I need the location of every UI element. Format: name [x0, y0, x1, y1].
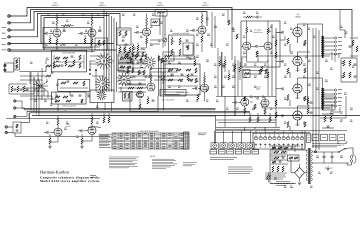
- selector wafer S1C: [123, 79, 124, 80]
- wire bus2 top: [9, 10, 352, 37]
- junction hub: [40, 85, 42, 87]
- right driver bus rows: [216, 119, 276, 121]
- resistor cathode V5r: [264, 109, 266, 114]
- selenium rectifier bridge: [295, 168, 305, 179]
- terminal labels T2: [338, 89, 342, 91]
- phono2 box: [13, 122, 21, 133]
- bias parts right low: [324, 116, 326, 122]
- loudness control box: [169, 35, 195, 59]
- wire V1A plate: [56, 25, 58, 29]
- selector parts row3: [127, 68, 129, 73]
- triode V1A: [53, 29, 61, 37]
- triode V2B: [143, 28, 151, 36]
- wire V4A down: [201, 46, 203, 52]
- wire right-driver drops: [244, 127, 246, 131]
- wire V2A plate: [91, 25, 93, 29]
- wire mid risers 3: [234, 56, 236, 116]
- ps lower parts: [272, 166, 274, 172]
- wire V1A cathode to box: [56, 48, 58, 51]
- resistor R9 cathode V2A: [91, 39, 93, 45]
- cathode follower box: [130, 96, 158, 112]
- wire lower-left riser bundle: [30, 72, 32, 111]
- small box mid right: [243, 70, 250, 78]
- components below V2B: [137, 45, 139, 51]
- wire riser bus f: [116, 22, 118, 92]
- wire right low bus 2: [216, 128, 280, 130]
- selector wafer S1A: [103, 60, 104, 61]
- wire V2B lower down: [91, 135, 93, 142]
- resistor plate V2B lower: [91, 117, 93, 124]
- centre vertical wires: [158, 55, 160, 96]
- svg-text:+: +: [325, 154, 326, 157]
- input jack J2: [8, 22, 11, 25]
- resistor R3 plate V1A: [56, 17, 58, 25]
- wire bus6 top: [9, 18, 104, 51]
- parts list col 3: [276, 181, 290, 183]
- resistor in splitter 1: [246, 27, 248, 33]
- ground bus dots: [270, 183, 296, 185]
- treble network box lower: [58, 79, 90, 91]
- wire B+ rail 2: [315, 28, 317, 133]
- aux jack row: [14, 100, 16, 102]
- feedback wiring: [341, 57, 357, 59]
- parts above bass box: [158, 56, 160, 61]
- small note far left: [90, 175, 96, 177]
- wire interstage v2: [221, 52, 223, 96]
- resistor cathode V4A: [201, 36, 203, 42]
- centre misc parts: [194, 60, 196, 66]
- triode V2A: [88, 29, 96, 37]
- parts cluster under filter box: [119, 47, 121, 53]
- wire bus mid-6: [6, 118, 100, 120]
- input jack labels: [2, 27, 7, 29]
- svg-text:6BQ5: 6BQ5: [256, 88, 260, 91]
- input jack J3: [8, 29, 11, 32]
- wire ps vertical left: [269, 150, 271, 184]
- resistor cathode V2B lower: [81, 138, 83, 144]
- wire bus mid-2: [25, 109, 216, 111]
- resistor splitter tail 2: [239, 66, 241, 72]
- tiny terminals mid: [89, 69, 91, 71]
- capacitor grid V2B lower: [80, 129, 82, 132]
- wire eq risers: [27, 77, 34, 94]
- treble pot: [163, 58, 167, 62]
- screen resistor col right: [275, 100, 277, 106]
- wire drops to cap box: [255, 131, 257, 133]
- wire mid verticals 2: [221, 52, 223, 96]
- wire right vertical bundle: [267, 60, 269, 96]
- wire eq fan 2: [24, 91, 48, 98]
- wire bus3 top: [9, 12, 207, 31]
- splitter coupling parts: [255, 45, 257, 48]
- ps resistor row2: [274, 157, 279, 159]
- speaker terminals T1: [334, 37, 336, 39]
- triode V2B lower: [88, 127, 96, 135]
- wire feedback long: [336, 54, 340, 58]
- phono jack 1: [4, 64, 6, 66]
- selector wafer S1D: [102, 83, 103, 84]
- capacitor C5 V2A grid: [80, 32, 82, 35]
- phono jack 2: [4, 69, 6, 71]
- ground V2B cathode: [80, 146, 83, 148]
- wire splitter bottom: [247, 50, 268, 62]
- wire bus mid-1: [22, 107, 216, 109]
- bias network left of PT: [288, 155, 300, 161]
- wire riser bus d: [111, 16, 113, 92]
- tape output terminal strip: [184, 132, 190, 149]
- wire second lower run: [10, 51, 95, 53]
- treble network box: [52, 92, 87, 104]
- wire phono riser to bus: [28, 113, 30, 119]
- wire eq fan 3: [20, 96, 52, 100]
- wire right low bus 1: [216, 127, 280, 129]
- resistor plate V4r: [244, 97, 246, 101]
- wire tap drops: [331, 52, 333, 60]
- selector wiring: [90, 61, 96, 70]
- feedback resistors right: [343, 60, 345, 66]
- wire out tubes screen: [289, 44, 291, 52]
- wire top mid verticals: [159, 12, 161, 35]
- triode V4 right channel: [241, 98, 249, 106]
- capacitor interstage: [233, 69, 236, 71]
- power transformer windings: [306, 150, 307, 153]
- socket row 2: [210, 150, 217, 154]
- switch resistor box A: [118, 54, 133, 62]
- triode V4A: [198, 26, 206, 34]
- V2A lower box: [95, 38, 108, 50]
- switch bank right: [322, 96, 335, 110]
- svg-text:12AX7A: 12AX7A: [52, 4, 60, 7]
- resistor extra mid2: [46, 65, 51, 67]
- resistor in splitter 2: [267, 28, 269, 34]
- balance wafer S2: [101, 95, 102, 96]
- resistor R7 grid V2A: [84, 38, 86, 44]
- resistor plate V3A: [150, 75, 152, 82]
- bass tone network box: [52, 51, 87, 72]
- svg-text:NOTE:: NOTE:: [150, 155, 156, 158]
- wire splitter bottom rows: [243, 70, 268, 72]
- electrolytic C30: [323, 156, 326, 158]
- cathode follower parts: [147, 98, 149, 104]
- wire lower riser a: [21, 101, 23, 108]
- wire interstage v1: [217, 48, 219, 96]
- resistor R16 plate V2B: [146, 18, 148, 26]
- bass control box lower channel: [165, 64, 200, 95]
- input jack J4: [8, 36, 11, 39]
- parts list col 2: [265, 172, 287, 174]
- wire riser bus e: [113, 18, 115, 92]
- phono eq box: [5, 63, 14, 72]
- big lower box outline: [180, 116, 216, 143]
- dense box right of balance: [123, 92, 133, 102]
- svg-text:Harman-Kardon: Harman-Kardon: [40, 169, 70, 174]
- capacitor V5B grid: [195, 87, 197, 90]
- selector part col extra: [125, 54, 127, 59]
- wire bus mid-3: [27, 110, 250, 112]
- resistor cathode V4r: [244, 108, 246, 113]
- filter capacitor can row: [253, 133, 305, 149]
- wire drops to lower tubes: [57, 104, 59, 111]
- wire ps risers: [301, 144, 303, 150]
- wire lower riser b: [24, 108, 26, 110]
- T1 secondary taps: [324, 37, 330, 39]
- wire T2 primary: [298, 78, 323, 88]
- wire tape out run: [15, 135, 110, 137]
- loudness parts: [186, 39, 189, 41]
- wire to output tubes: [276, 31, 282, 33]
- tube socket diagram 4: [238, 143, 245, 149]
- ps extra rows2: [270, 155, 286, 157]
- wire selector to follower: [129, 92, 131, 96]
- tube socket diagram 3: [229, 143, 236, 149]
- tube socket diagram 2: [220, 143, 227, 149]
- phase symbol small: [267, 176, 270, 179]
- triode cathode follower: [137, 91, 144, 98]
- wire plate runs output: [307, 24, 309, 105]
- wire bus1 top: [9, 8, 232, 24]
- ac plug P1: [350, 156, 353, 159]
- bass pot: [161, 76, 165, 80]
- right driver drops: [249, 117, 251, 122]
- wire bus5 top: [9, 16, 109, 44]
- coupling parts right ch: [254, 104, 256, 109]
- wire riser bus a: [103, 10, 105, 92]
- wire drops to sockets: [214, 131, 216, 143]
- power transformer core: [308, 148, 310, 184]
- triode V5B centre: [201, 84, 209, 92]
- resistor right of box: [261, 66, 263, 72]
- capacitor grid V4r: [234, 101, 236, 104]
- resistor plate V4A: [201, 15, 203, 23]
- output pentode V7 6BQ5: [293, 84, 302, 93]
- resistor plate V5B: [204, 76, 206, 83]
- bass lower lattice: [168, 69, 173, 71]
- resistor interstage b: [228, 74, 230, 80]
- wire selector rows left: [90, 55, 104, 57]
- feedback caps right: [354, 63, 357, 65]
- wire V2A out: [91, 49, 94, 52]
- resistor R4 cathode V1A: [56, 39, 58, 45]
- wire selector rows right: [150, 68, 178, 70]
- wire ps horizontal: [270, 149, 308, 151]
- upper mid extra wires: [150, 39, 163, 41]
- svg-text:12AX7A: 12AX7A: [99, 4, 107, 7]
- svg-text:12AX7A: 12AX7A: [202, 4, 210, 7]
- resistor splitter tail 1: [234, 64, 236, 70]
- speaker terminals T2: [334, 89, 336, 91]
- wire input6 to selector: [44, 49, 116, 51]
- socket row 2 ticks: [211, 151, 216, 153]
- aux terminal text: [312, 143, 345, 145]
- terminal labels T1: [338, 37, 342, 39]
- wire left col run: [45, 60, 47, 64]
- wire splitter to output: [276, 31, 280, 33]
- triode V4B: [243, 42, 251, 50]
- selector wafer S1B: [149, 62, 150, 63]
- switch resistor box B: [118, 63, 133, 71]
- phono2 jack 2: [5, 131, 7, 133]
- ps resistor row: [274, 151, 279, 153]
- wire bus4 top: [9, 14, 120, 37]
- output grid resistors: [287, 38, 289, 44]
- wire B+ rail 3: [318, 30, 320, 135]
- phono2 jack 1: [5, 126, 7, 128]
- speaker select wiring: [345, 96, 347, 118]
- filter box parts: [119, 31, 121, 36]
- wire PT secondary top: [312, 151, 339, 153]
- wire riser bus b: [106, 12, 108, 92]
- aux jack row2: [14, 107, 16, 109]
- wire eq fan 4: [30, 99, 56, 103]
- small box centre left: [183, 43, 193, 55]
- tube socket diagram 5: [247, 143, 254, 149]
- filter cap terminal box: [307, 134, 311, 143]
- capacitor C2 V1A grid: [45, 32, 47, 35]
- selector parts row: [127, 52, 129, 57]
- aux jack row3: [14, 115, 16, 117]
- wire PT secondary low: [312, 162, 349, 164]
- svg-text:+: +: [333, 154, 334, 157]
- phono eq inner box: [14, 58, 20, 70]
- svg-text:6BQ5: 6BQ5: [295, 15, 301, 18]
- interstage col extra: [219, 60, 221, 66]
- output transformer T2: [321, 88, 322, 90]
- triode V3A centre: [147, 83, 155, 91]
- resistor extra mid1: [65, 60, 67, 66]
- output pentode V3 6BQ5: [293, 27, 302, 36]
- wire feedback run upper: [258, 55, 330, 57]
- input jack J5: [8, 42, 11, 45]
- wire lower riser d: [29, 113, 31, 123]
- tube socket diagram 1: [211, 143, 218, 149]
- eq network resistors: [11, 86, 13, 92]
- balance box with wafer: [90, 90, 114, 103]
- selector area lattice: [118, 51, 146, 53]
- socket strip label: [198, 132, 207, 134]
- aux terminal block row: [312, 134, 319, 141]
- capacitor coupling mid: [55, 95, 57, 98]
- input jack J1: [8, 15, 11, 18]
- output pentode V4 6BQ5: [293, 56, 302, 65]
- resistor plate V1B: [57, 118, 59, 125]
- wire right low bus 3: [216, 130, 347, 132]
- svg-text:12AX7A: 12AX7A: [157, 4, 165, 7]
- upper left extra: [63, 29, 66, 31]
- capacitor C20: [192, 29, 194, 32]
- wire input6b: [44, 46, 100, 48]
- electrolytic C31: [331, 156, 334, 158]
- svg-text:PHASE INV.: PHASE INV.: [253, 31, 263, 34]
- capacitor C12 V2B: [136, 31, 138, 34]
- bias parts column: [307, 98, 309, 104]
- volume pot: [163, 38, 167, 42]
- first stage shield box: [43, 28, 91, 49]
- wire feedback run lower: [262, 104, 330, 108]
- tape output label box: [160, 90, 186, 97]
- wire B+ rail 1: [312, 28, 314, 131]
- loudness pot 2: [179, 38, 181, 45]
- output transformer T1: [321, 36, 322, 38]
- parts list col 1: [210, 157, 237, 159]
- wire V1B down: [57, 136, 59, 142]
- resistor R17 cathode V2B: [146, 38, 148, 44]
- output coupling caps: [281, 31, 283, 34]
- ground V1B cathode: [48, 146, 51, 148]
- capacitor bypass row: [63, 43, 66, 45]
- note under big box: [183, 162, 197, 164]
- wire input5 to selector: [41, 43, 114, 45]
- resistor R5 coupling: [64, 25, 71, 27]
- wire loudness top: [164, 16, 166, 35]
- wire phono out: [20, 71, 46, 73]
- coil on lead: [92, 127, 98, 128]
- output sect extra: [304, 40, 306, 45]
- notes block left: [109, 156, 139, 158]
- bass network parts: [55, 57, 60, 59]
- voltage chart table: [112, 133, 188, 149]
- wire bus mid-5: [32, 115, 360, 117]
- capacitor grid V1B: [46, 131, 48, 134]
- selector lower parts: [128, 87, 134, 89]
- svg-text:Model A230 stereo amplifier sy: Model A230 stereo amplifier system.: [40, 179, 100, 183]
- wire bottom right drops: [312, 131, 314, 148]
- svg-text:1. VOLTAGE READINGS: 1. VOLTAGE READINGS: [137, 130, 159, 133]
- small box level set: [151, 19, 160, 26]
- wire eq fan 1: [22, 88, 44, 96]
- triode V5A: [264, 42, 272, 50]
- wire bus mid-4: [30, 112, 251, 114]
- wire riser bus c: [108, 14, 110, 92]
- resistor interstage a: [224, 60, 226, 66]
- wire under selector: [96, 70, 104, 92]
- input jack J6: [8, 49, 11, 52]
- wire right low bus 4: [216, 131, 310, 133]
- output pentode V8 6BQ5: [293, 111, 302, 120]
- wire lower riser c: [26, 111, 28, 116]
- capacitor C24 top: [256, 16, 258, 19]
- wire right ch risers: [224, 96, 226, 127]
- treble parts: [55, 96, 60, 98]
- output tube wiring: [297, 37, 299, 43]
- wire T1 primary: [298, 24, 323, 36]
- T2 secondary taps: [324, 89, 330, 91]
- wire top right drop: [339, 10, 341, 31]
- shield box filter: [117, 28, 131, 45]
- resistor pair under bus: [103, 117, 105, 123]
- ps extra rows: [270, 145, 300, 147]
- phase inverter box: [241, 21, 280, 67]
- power switch SW1: [339, 149, 345, 153]
- ground symbol ps: [298, 182, 301, 184]
- resistor R30 top: [246, 16, 252, 18]
- component value labels (illegible at scale): [47, 13, 49, 15]
- wire driver B+ feed: [216, 96, 276, 98]
- resistor R2 grid V1A: [49, 38, 51, 44]
- wire centre v3: [231, 23, 233, 60]
- eq network caps: [14, 88, 17, 90]
- loudness pot 1: [171, 38, 173, 45]
- switch aux box: [163, 52, 174, 61]
- wire right edge vert: [351, 36, 353, 58]
- triode V1B: [54, 128, 62, 136]
- triode V5 right channel: [261, 99, 269, 107]
- resistor cathode V1B: [49, 138, 51, 144]
- selector parts row2: [127, 61, 130, 63]
- resistor R8 plate V2A: [91, 17, 93, 25]
